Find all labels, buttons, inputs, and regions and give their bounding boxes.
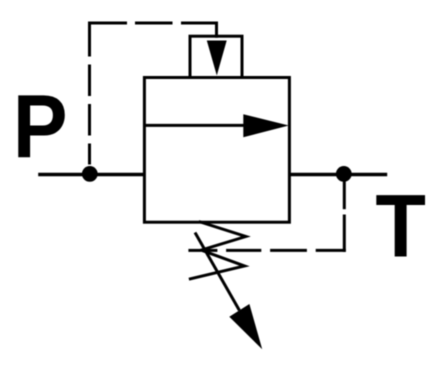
spring (zigzag) below valve body <box>189 222 246 280</box>
wire: T port line (right) <box>289 173 387 177</box>
wire: P port line (left) <box>38 173 144 177</box>
pilot line (dashed): horizontal run across the top <box>88 22 218 25</box>
node T junction (right dot) <box>336 166 352 182</box>
svg-text:P: P <box>13 77 68 177</box>
drain line (dashed): stub from spring vertex <box>188 249 201 252</box>
pilot line: solid drop into actuator box <box>215 22 218 38</box>
flow path arrow inside valve body <box>144 114 288 137</box>
node P junction (left dot) <box>82 166 98 182</box>
pilot pressure triangle inside actuator box <box>207 41 227 76</box>
pilot line (dashed): vertical run up from P node <box>88 23 91 165</box>
drain line (dashed): vertical run up to T node <box>343 181 346 252</box>
port label P <box>13 77 68 177</box>
pilot actuator box on top of valve <box>190 36 242 77</box>
port label T <box>375 177 426 276</box>
svg-text:T: T <box>375 177 426 276</box>
drain line (dashed): horizontal run to the right <box>205 249 346 252</box>
adjustment arrow head <box>229 304 262 349</box>
adjustment arrow shaft across spring <box>195 233 239 311</box>
valve body U1 (main envelope box) <box>144 78 289 223</box>
